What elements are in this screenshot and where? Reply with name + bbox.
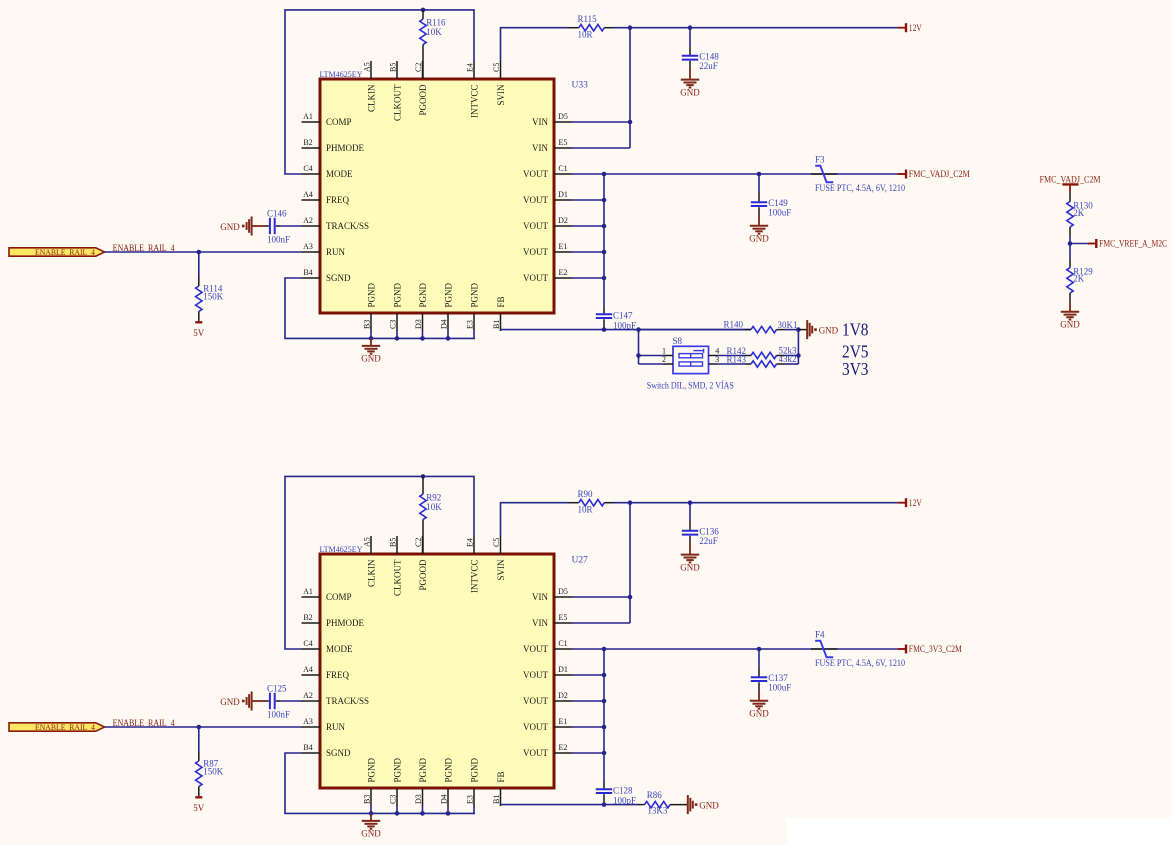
- power port 5V: [195, 796, 202, 798]
- junction VOUT row 5: [602, 725, 607, 730]
- svg-text:5V: 5V: [193, 803, 205, 813]
- pin C3 PGND of U27: [396, 788, 398, 806]
- svg-text:C2: C2: [414, 538, 423, 547]
- svg-text:C1: C1: [558, 639, 567, 648]
- svg-text:E5: E5: [559, 613, 568, 622]
- svg-text:E2: E2: [559, 268, 568, 277]
- svg-text:TRACK/SS: TRACK/SS: [326, 221, 369, 231]
- wire SGND PGND loop: [285, 753, 475, 813]
- svg-text:A4: A4: [303, 190, 313, 199]
- pin E4 INTVCC of U27: [473, 536, 475, 554]
- svg-text:VOUT: VOUT: [523, 169, 548, 179]
- capacitor C128 100pF: [603, 782, 605, 789]
- wire VOUT bus: [573, 173, 898, 175]
- resistor R86 13K3: [638, 804, 645, 806]
- svg-text:COMP: COMP: [326, 117, 352, 127]
- junction PGND: [420, 336, 425, 341]
- pin A5 CLKIN of U27: [370, 536, 372, 554]
- svg-text:PHMODE: PHMODE: [326, 618, 365, 628]
- pin A1 COMP of U33: [302, 121, 321, 123]
- svg-text:CLKOUT: CLKOUT: [392, 84, 402, 121]
- pin C5 SVIN of U27: [500, 536, 502, 554]
- svg-text:B5: B5: [388, 538, 397, 547]
- pin E2 VOUT of U33: [554, 277, 573, 279]
- resistor R143 43k2: [718, 363, 746, 365]
- svg-text:FMC_VADJ_C2M: FMC_VADJ_C2M: [1040, 174, 1101, 184]
- svg-text:SVIN: SVIN: [496, 559, 506, 581]
- svg-text:PGND: PGND: [392, 757, 402, 782]
- junction VOUT C1: [602, 647, 607, 652]
- pin C2 PGOOD of U27: [422, 536, 424, 554]
- resistor R116 10K: [422, 10, 424, 19]
- svg-text:FMC_3V3_C2M: FMC_3V3_C2M: [909, 644, 962, 654]
- svg-text:C128: C128: [613, 786, 633, 796]
- wire 12V rail: [614, 502, 898, 504]
- junction VOUT row 4: [602, 224, 607, 229]
- resistor R130 2K: [1069, 192, 1071, 202]
- pin A2 TRACK/SS of U33: [302, 225, 321, 227]
- svg-text:GND: GND: [819, 326, 839, 336]
- pin E4 INTVCC of U33: [473, 61, 475, 79]
- pin A4 FREQ of U27: [302, 674, 321, 676]
- ground PGND: [370, 813, 372, 820]
- junction VOUT C1: [602, 172, 607, 177]
- svg-text:C3: C3: [388, 320, 397, 329]
- wire SVIN to 12V rail: [501, 503, 570, 536]
- IC U33 LTM4625EY regulator module body: [320, 79, 554, 313]
- svg-text:VOUT: VOUT: [523, 670, 548, 680]
- junction switch pin1: [636, 353, 641, 358]
- junction PGND: [369, 811, 374, 816]
- svg-text:2K: 2K: [1073, 208, 1085, 218]
- svg-text:A3: A3: [303, 717, 313, 726]
- wire FB net: [500, 330, 502, 331]
- svg-text:A2: A2: [303, 216, 313, 225]
- pin B1 FB of U27: [500, 788, 502, 806]
- junction output cap branch: [757, 172, 762, 177]
- svg-text:C4: C4: [303, 639, 312, 648]
- svg-text:C146: C146: [267, 208, 287, 218]
- ground left of C125: [252, 700, 264, 702]
- sheet entry ENABLE_RAIL_4: [9, 248, 105, 256]
- svg-text:GND: GND: [220, 222, 240, 232]
- junction PGND: [446, 811, 451, 816]
- svg-text:A4: A4: [303, 665, 313, 674]
- svg-text:A5: A5: [362, 537, 371, 547]
- pin E5 VIN of U33: [554, 147, 573, 149]
- svg-text:GND: GND: [680, 87, 700, 97]
- junction VOUT row 3: [602, 673, 607, 678]
- white margin patch: [787, 818, 1172, 845]
- svg-text:FMC_VADJ_C2M: FMC_VADJ_C2M: [909, 169, 970, 179]
- svg-text:FREQ: FREQ: [326, 670, 350, 680]
- pin A2 TRACK/SS of U27: [302, 700, 321, 702]
- svg-text:A1: A1: [303, 587, 313, 596]
- pin A1 COMP of U27: [302, 596, 321, 598]
- pin B5 CLKOUT of U33: [396, 61, 398, 79]
- svg-text:C2: C2: [414, 63, 423, 72]
- pin B4 SGND of U33: [302, 277, 321, 279]
- svg-text:150K: 150K: [203, 292, 224, 302]
- svg-text:D2: D2: [558, 216, 568, 225]
- switch S8 DIL SMD: [673, 346, 709, 373]
- pin E3 PGND of U27: [473, 788, 475, 806]
- wire VIN pins to rail: [629, 503, 631, 623]
- pin C1 VOUT of U33: [554, 173, 573, 175]
- junction VOUT row 6: [602, 276, 607, 281]
- pin 4 of S8: [709, 355, 718, 357]
- svg-text:VIN: VIN: [532, 117, 548, 127]
- junction VIN branch: [628, 25, 633, 30]
- capacitor C148 22uF: [689, 28, 691, 47]
- svg-text:MODE: MODE: [326, 169, 353, 179]
- wire FB to R140: [639, 329, 746, 331]
- svg-text:RUN: RUN: [326, 722, 346, 732]
- svg-text:30K1: 30K1: [778, 320, 798, 330]
- svg-text:GND: GND: [361, 829, 381, 839]
- svg-text:R143: R143: [727, 354, 747, 364]
- svg-text:10K: 10K: [426, 502, 442, 512]
- svg-text:B3: B3: [362, 320, 371, 329]
- pin B1 FB of U33: [500, 313, 502, 331]
- svg-text:ENABLE_RAIL_4: ENABLE_RAIL_4: [35, 248, 95, 257]
- wire R142 R143 to GND node: [797, 330, 799, 364]
- wire FB net: [500, 805, 502, 806]
- svg-text:E1: E1: [559, 242, 568, 251]
- svg-text:GND: GND: [361, 354, 381, 364]
- svg-text:CLKIN: CLKIN: [366, 84, 376, 112]
- pin B2 PHMODE of U33: [302, 147, 321, 149]
- svg-text:3V3: 3V3: [842, 359, 869, 379]
- junction PGND: [395, 811, 400, 816]
- junction RUN pulldown: [197, 250, 202, 255]
- pin E5 VIN of U27: [554, 622, 573, 624]
- svg-text:A1: A1: [303, 112, 313, 121]
- pin B4 SGND of U27: [302, 752, 321, 754]
- svg-text:D5: D5: [558, 112, 568, 121]
- ground left of C146: [252, 225, 264, 227]
- fuse F4 PTC: [811, 648, 838, 650]
- svg-text:VOUT: VOUT: [523, 195, 548, 205]
- resistor R90 10R: [569, 502, 579, 504]
- svg-text:D1: D1: [558, 665, 568, 674]
- svg-text:100nF: 100nF: [267, 710, 290, 720]
- svg-text:D4: D4: [439, 319, 448, 329]
- svg-text:E2: E2: [559, 743, 568, 752]
- svg-text:D2: D2: [558, 691, 568, 700]
- junction VOUT row 4: [602, 699, 607, 704]
- svg-text:R86: R86: [647, 790, 663, 800]
- pin D3 PGND of U27: [422, 788, 424, 806]
- capacitor C137 100uF: [758, 649, 760, 668]
- resistor R87 150K: [198, 727, 200, 752]
- pin B2 PHMODE of U27: [302, 622, 321, 624]
- svg-text:F3: F3: [815, 155, 825, 165]
- port FMC_VREF_A_M2C: [1070, 243, 1090, 245]
- svg-text:22uF: 22uF: [699, 536, 718, 546]
- capacitor C147 100pF: [603, 307, 605, 314]
- pin E1 VOUT of U33: [554, 251, 573, 253]
- wire divider middle: [1069, 236, 1071, 259]
- svg-text:VOUT: VOUT: [523, 644, 548, 654]
- svg-text:PGND: PGND: [366, 282, 376, 307]
- junction VOUT row 5: [602, 250, 607, 255]
- svg-text:10R: 10R: [578, 505, 593, 515]
- svg-text:PGND: PGND: [469, 757, 479, 782]
- wire RUN net: [105, 726, 302, 728]
- junction VIN D5: [628, 595, 633, 600]
- svg-text:FUSE PTC, 4.5A, 6V, 1210: FUSE PTC, 4.5A, 6V, 1210: [815, 183, 905, 193]
- svg-text:SGND: SGND: [326, 273, 351, 283]
- svg-text:PGND: PGND: [469, 282, 479, 307]
- svg-text:150K: 150K: [203, 767, 224, 777]
- svg-text:C147: C147: [613, 311, 633, 321]
- svg-text:ENABLE_RAIL_4: ENABLE_RAIL_4: [35, 723, 95, 732]
- wire RUN net: [105, 251, 302, 253]
- svg-text:PGND: PGND: [418, 282, 428, 307]
- svg-text:B2: B2: [303, 138, 312, 147]
- pin D4 PGND of U33: [447, 313, 449, 331]
- power port 5V: [195, 321, 202, 323]
- ground right of R86: [687, 795, 689, 814]
- svg-text:R115: R115: [578, 14, 598, 24]
- svg-text:100uF: 100uF: [768, 207, 791, 217]
- pin 3 of S8: [709, 363, 718, 365]
- svg-text:S8: S8: [673, 336, 683, 346]
- svg-text:VOUT: VOUT: [523, 273, 548, 283]
- wire 12V rail: [614, 27, 898, 29]
- capacitor C136 22uF: [689, 503, 691, 522]
- power port 12V: [898, 502, 906, 504]
- pin A4 FREQ of U33: [302, 199, 321, 201]
- svg-text:B5: B5: [388, 63, 397, 72]
- svg-text:VOUT: VOUT: [523, 748, 548, 758]
- svg-text:13K3: 13K3: [647, 806, 667, 816]
- svg-text:3: 3: [715, 355, 719, 364]
- svg-text:E5: E5: [559, 138, 568, 147]
- svg-text:GND: GND: [699, 801, 719, 811]
- svg-text:GND: GND: [680, 562, 700, 572]
- svg-text:R90: R90: [578, 489, 594, 499]
- pin B3 PGND of U27: [370, 788, 372, 806]
- junction PGND: [420, 811, 425, 816]
- svg-text:R140: R140: [723, 319, 743, 329]
- svg-text:SGND: SGND: [326, 748, 351, 758]
- ground below C137: [758, 691, 760, 701]
- junction bulk cap branch: [688, 500, 693, 505]
- junction PGND: [369, 336, 374, 341]
- port FMC_3V3_C2M: [898, 648, 906, 650]
- svg-text:GND: GND: [749, 709, 769, 719]
- junction FB node: [602, 327, 607, 332]
- pin A3 RUN of U27: [302, 726, 321, 728]
- resistor R115 10R: [569, 27, 579, 29]
- svg-text:U33: U33: [572, 81, 589, 91]
- svg-text:PGND: PGND: [443, 757, 453, 782]
- pin A5 CLKIN of U33: [370, 61, 372, 79]
- svg-text:TRACK/SS: TRACK/SS: [326, 696, 369, 706]
- svg-text:LTM4625EY: LTM4625EY: [320, 544, 363, 554]
- svg-text:PGND: PGND: [366, 757, 376, 782]
- svg-text:FB: FB: [496, 771, 506, 782]
- svg-text:FREQ: FREQ: [326, 195, 350, 205]
- svg-text:A3: A3: [303, 242, 313, 251]
- pin E1 VOUT of U27: [554, 726, 573, 728]
- svg-text:VOUT: VOUT: [523, 722, 548, 732]
- ground below C149: [758, 216, 760, 226]
- resistor R114 150K: [198, 252, 200, 277]
- svg-text:B3: B3: [362, 795, 371, 804]
- svg-text:CLKIN: CLKIN: [366, 559, 376, 587]
- svg-text:12V: 12V: [909, 498, 922, 508]
- svg-text:12V: 12V: [909, 23, 922, 33]
- svg-text:1V8: 1V8: [842, 320, 869, 340]
- junction VOUT row 3: [602, 198, 607, 203]
- pin D5 VIN of U27: [554, 596, 573, 598]
- junction bulk cap branch: [688, 25, 693, 30]
- svg-text:A5: A5: [362, 62, 371, 72]
- svg-text:PGOOD: PGOOD: [418, 84, 428, 116]
- svg-text:2K: 2K: [1073, 274, 1085, 284]
- sheet entry ENABLE_RAIL_4: [9, 723, 105, 731]
- ground below R129: [1069, 302, 1071, 311]
- svg-text:E4: E4: [465, 538, 474, 547]
- junction on INTVCC loop: [421, 474, 426, 479]
- svg-text:FMC_VREF_A_M2C: FMC_VREF_A_M2C: [1099, 239, 1167, 249]
- svg-text:MODE: MODE: [326, 644, 353, 654]
- svg-text:22uF: 22uF: [699, 61, 718, 71]
- junction R142 node: [796, 353, 801, 358]
- svg-text:C5: C5: [492, 538, 501, 547]
- junction PGND: [446, 336, 451, 341]
- svg-text:VOUT: VOUT: [523, 221, 548, 231]
- svg-text:43k2: 43k2: [779, 354, 797, 364]
- junction divider tap: [1068, 241, 1073, 246]
- wire SGND PGND loop: [285, 278, 475, 338]
- svg-text:C3: C3: [388, 795, 397, 804]
- svg-text:VIN: VIN: [532, 592, 548, 602]
- svg-text:C5: C5: [492, 63, 501, 72]
- wire SVIN to 12V rail: [501, 28, 570, 61]
- pin D1 VOUT of U33: [554, 199, 573, 201]
- svg-text:F4: F4: [815, 630, 825, 640]
- pin D2 VOUT of U33: [554, 225, 573, 227]
- svg-text:SVIN: SVIN: [496, 84, 506, 106]
- wire VOUT bus: [573, 648, 898, 650]
- resistor R129 2K: [1069, 259, 1071, 268]
- svg-text:100nF: 100nF: [267, 235, 290, 245]
- svg-text:2: 2: [662, 355, 666, 364]
- power port 12V: [898, 27, 906, 29]
- ground below C148: [689, 70, 691, 79]
- junction FB node: [602, 802, 607, 807]
- svg-text:PHMODE: PHMODE: [326, 143, 365, 153]
- pin D1 VOUT of U27: [554, 674, 573, 676]
- svg-text:LTM4625EY: LTM4625EY: [320, 69, 363, 79]
- svg-text:RUN: RUN: [326, 247, 346, 257]
- svg-text:B4: B4: [303, 743, 312, 752]
- pin B3 PGND of U33: [370, 313, 372, 331]
- svg-text:VIN: VIN: [532, 618, 548, 628]
- pin C2 PGOOD of U33: [422, 61, 424, 79]
- resistor R92 10K: [422, 476, 424, 494]
- wire MODE to INTVCC loop: [285, 476, 474, 649]
- svg-text:100uF: 100uF: [768, 682, 791, 692]
- junction VOUT row 6: [602, 751, 607, 756]
- pin D4 PGND of U27: [447, 788, 449, 806]
- svg-text:FUSE PTC, 4.5A, 6V, 1210: FUSE PTC, 4.5A, 6V, 1210: [815, 658, 905, 668]
- pin D2 VOUT of U27: [554, 700, 573, 702]
- resistor R142 52k3: [718, 355, 746, 357]
- pin E2 VOUT of U27: [554, 752, 573, 754]
- svg-text:CLKOUT: CLKOUT: [392, 559, 402, 596]
- junction FB switch branch: [636, 327, 641, 332]
- pin C4 MODE of U27: [302, 648, 321, 650]
- junction R140 GND node: [796, 327, 801, 332]
- IC U27 LTM4625EY regulator module body: [320, 554, 554, 788]
- svg-text:D5: D5: [558, 587, 568, 596]
- svg-text:VOUT: VOUT: [523, 247, 548, 257]
- svg-text:GND: GND: [749, 234, 769, 244]
- pin B5 CLKOUT of U27: [396, 536, 398, 554]
- pin E3 PGND of U33: [473, 313, 475, 331]
- svg-text:VOUT: VOUT: [523, 696, 548, 706]
- pin D3 PGND of U33: [422, 313, 424, 331]
- ground below C136: [689, 545, 691, 554]
- pin C3 PGND of U33: [396, 313, 398, 331]
- svg-text:E3: E3: [465, 320, 474, 329]
- svg-text:PGND: PGND: [443, 282, 453, 307]
- pin 1 of S8: [664, 355, 673, 357]
- svg-text:C4: C4: [303, 164, 312, 173]
- svg-text:U27: U27: [572, 556, 589, 566]
- svg-text:C1: C1: [558, 164, 567, 173]
- svg-text:D1: D1: [558, 190, 568, 199]
- capacitor C146 100nF: [280, 225, 302, 227]
- svg-text:D3: D3: [414, 319, 423, 329]
- fuse F3 PTC: [811, 173, 838, 175]
- svg-text:PGOOD: PGOOD: [418, 559, 428, 591]
- ground FB network: [798, 329, 806, 331]
- capacitor C125 100nF: [280, 700, 302, 702]
- pin A3 RUN of U33: [302, 251, 321, 253]
- junction on INTVCC loop: [421, 8, 426, 13]
- resistor R140 30K1: [745, 329, 751, 331]
- port FMC_VADJ_C2M: [898, 173, 906, 175]
- pin 2 of S8: [664, 363, 673, 365]
- svg-text:INTVCC: INTVCC: [469, 560, 479, 594]
- svg-text:E1: E1: [559, 717, 568, 726]
- svg-text:VIN: VIN: [532, 143, 548, 153]
- ground PGND: [370, 338, 372, 345]
- junction VIN branch: [628, 500, 633, 505]
- svg-text:D4: D4: [439, 794, 448, 804]
- svg-text:10K: 10K: [426, 27, 442, 37]
- svg-text:D3: D3: [414, 794, 423, 804]
- pin C5 SVIN of U33: [500, 61, 502, 79]
- svg-text:Switch DIL, SMD, 2 VÍAS: Switch DIL, SMD, 2 VÍAS: [647, 381, 734, 391]
- svg-text:5V: 5V: [193, 328, 205, 338]
- svg-text:COMP: COMP: [326, 592, 352, 602]
- svg-text:C125: C125: [267, 683, 287, 693]
- svg-text:E3: E3: [465, 795, 474, 804]
- junction output cap branch: [757, 647, 762, 652]
- svg-text:FB: FB: [496, 296, 506, 307]
- junction RUN pulldown: [197, 725, 202, 730]
- svg-text:PGND: PGND: [392, 282, 402, 307]
- svg-text:PGND: PGND: [418, 757, 428, 782]
- wire MODE to INTVCC loop: [285, 10, 474, 174]
